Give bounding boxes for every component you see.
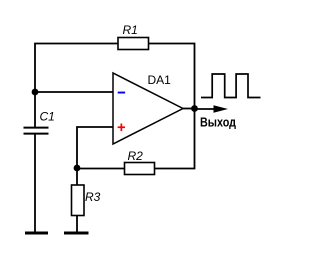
node A (junction dot, inverting input net)	[32, 89, 39, 96]
svg-text:DA1: DA1	[148, 73, 172, 87]
op-amp non-inverting input plus symbol	[118, 124, 125, 132]
capacitor C1	[24, 128, 49, 134]
wire: node A up to top-left corner and right to R1	[35, 44, 118, 93]
op-amp inverting input minus symbol	[118, 92, 125, 94]
wire: node A down to C1 top plate	[34, 92, 36, 127]
resistor R2	[125, 163, 155, 175]
wire: R1 right lead to top-right corner down to output node	[149, 44, 195, 109]
wire: node B to R2	[77, 168, 125, 170]
svg-text:R1: R1	[123, 23, 138, 37]
wire: node B down to R3	[76, 168, 78, 185]
svg-text:R3: R3	[85, 190, 101, 204]
wire: op-amp non-inverting input left then down to node B	[77, 127, 113, 168]
svg-text:R2: R2	[128, 149, 144, 163]
resistor R3	[72, 185, 85, 216]
svg-text:C1: C1	[40, 110, 55, 124]
resistor R1	[118, 38, 149, 50]
ground (under C1)	[25, 232, 48, 235]
node C (output junction dot)	[191, 105, 198, 112]
wire: node A to op-amp inverting input	[35, 91, 113, 93]
wire: C1 bottom plate down to ground	[34, 135, 36, 232]
svg-text:Выход: Выход	[200, 114, 237, 129]
op-amp DA1	[113, 73, 183, 144]
square wave symbol	[201, 74, 261, 98]
node B (junction dot, R2/R3 divider)	[74, 165, 81, 172]
wire: R3 bottom lead to ground	[76, 216, 78, 232]
wire: op-amp output to node C	[183, 108, 195, 110]
wire: output arrow	[195, 105, 229, 113]
wire: R2 right lead to output node	[155, 109, 195, 169]
ground (under R3)	[64, 232, 89, 235]
